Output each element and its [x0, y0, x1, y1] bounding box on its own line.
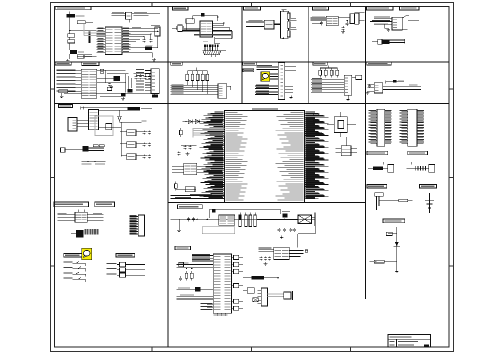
wire bus thick U2 right	[213, 31, 232, 39]
wire bus right of U15 thick	[243, 276, 279, 279]
wire audio jack down	[298, 224, 315, 248]
component dark box F bottom	[121, 93, 126, 100]
resistor column right of U15	[232, 255, 244, 310]
net label rows bottom left of U15	[201, 303, 214, 310]
net label text under U2	[194, 34, 231, 35]
IC U10 torch driver	[75, 212, 87, 222]
ground audio left	[177, 219, 181, 231]
capacitor C12 pair audio left	[187, 217, 208, 221]
capacitor C15 left of U15	[179, 276, 182, 281]
section I title box T-FLASH	[313, 62, 327, 65]
IC U8 motor driver	[374, 83, 382, 93]
section divider horizontal y=202.6	[168, 202, 366, 204]
wire input nets U3	[246, 20, 264, 26]
LED lamp DS1 dark component	[71, 229, 98, 238]
connector J14 camera FPC right	[400, 109, 424, 146]
connector J2 flex with coil pins	[203, 44, 221, 57]
resistor R11 pair left of U15	[185, 268, 193, 281]
transistor Q4 with cross	[253, 298, 259, 302]
wire J4 right angle net	[402, 16, 419, 21]
wire nets left of U10	[58, 213, 75, 220]
wire input nets U4	[310, 16, 326, 20]
electrolytic capacitor bank audio	[239, 213, 257, 227]
component box U2 left loop	[186, 19, 194, 31]
LED driver cell 1	[127, 130, 151, 136]
wire J7 to U9	[77, 120, 89, 126]
section E second title box GPS	[400, 6, 419, 10]
border zone tick marks	[50, 3, 453, 352]
wire nets right of U16	[289, 251, 303, 257]
fuse F1	[126, 12, 132, 19]
balun FL1	[97, 76, 120, 81]
IC U1 charger controller	[105, 27, 122, 55]
component box J5 bottom	[152, 94, 158, 98]
IC U2 flash memory	[200, 21, 213, 37]
capacitor C1	[77, 55, 92, 59]
transistor Q3	[243, 288, 254, 294]
connector J1 battery	[67, 14, 85, 18]
section F title box BLUETOOTH	[55, 62, 71, 65]
connector J11 right of U15	[258, 288, 268, 306]
resistor R8 left of U11	[180, 128, 182, 137]
ground SIM	[289, 96, 293, 99]
ground battery branch	[66, 54, 70, 63]
section B title box MEMORY	[173, 7, 189, 10]
section F second label box	[82, 62, 99, 65]
resistor array RN1 vertical resistors	[186, 68, 209, 95]
gray wire pair to speaker connector	[268, 294, 284, 296]
section C title box REGULATOR	[244, 6, 261, 10]
resistor R7 pair	[97, 69, 107, 73]
shield outline gray box K	[95, 116, 113, 136]
receiver EMI filter right	[407, 162, 435, 173]
connector J13 LCD FPC left	[369, 109, 392, 146]
section M title box LED	[64, 253, 82, 257]
capacitor bank F right	[134, 74, 151, 80]
wire output feedback loop	[131, 36, 158, 48]
wire trio bottom K	[82, 161, 106, 164]
resistor R12 chain branch	[369, 260, 397, 263]
wire bundle SIM nets upper	[257, 65, 279, 69]
IC U7 card socket	[344, 75, 351, 95]
section divider vertical x=365.5	[365, 6, 367, 299]
inductor L1	[151, 25, 160, 36]
resistor array RN2	[319, 66, 339, 78]
IC U11 baseband processor main	[224, 108, 304, 202]
label text J2	[221, 49, 226, 52]
LED driver cell 3	[127, 154, 151, 160]
IC U6 keypad scanner	[218, 84, 227, 98]
transistor Q1 row group right	[107, 262, 146, 277]
component box chain stub	[386, 232, 397, 235]
section A title box POWER/CHARGER	[56, 6, 91, 10]
capacitor C3	[149, 34, 152, 43]
resistor R2	[68, 30, 75, 37]
ground output branch	[152, 58, 156, 61]
wire bus rows T-flash	[311, 78, 344, 92]
connector J6 SIM socket	[278, 63, 285, 100]
component box U15 left small	[179, 262, 184, 266]
capacitor C11	[177, 151, 180, 155]
connector J3 camera socket	[350, 13, 359, 24]
IC U4 camera interface	[326, 16, 338, 26]
wire rows left of U15	[177, 263, 214, 268]
wire bus rows keypad	[171, 84, 219, 94]
page inner border frame	[55, 6, 449, 347]
section J title box VIBRATOR	[367, 62, 392, 65]
capacitor C8 group	[97, 82, 126, 89]
wire SIM right stubs	[285, 67, 296, 92]
section L title box TORCH	[54, 202, 89, 207]
capacitor C10 cluster	[181, 145, 197, 155]
wire mid row left of U15 with resistor	[177, 287, 214, 291]
IC U5 bluetooth	[81, 69, 97, 98]
label text B bottom	[203, 40, 208, 43]
gray shield bus section A	[84, 24, 105, 35]
ground left of U8	[366, 91, 370, 94]
net label right of divider	[370, 260, 377, 263]
IC U14 audio amplifier	[219, 215, 235, 225]
capacitor C14 pair audio bottom right	[289, 228, 296, 232]
receiver EMI filter left	[368, 162, 394, 173]
wire stub U6 right	[227, 86, 231, 90]
thermistor RT1	[70, 43, 84, 54]
wire U9 top nets	[81, 106, 99, 109]
wire output U3 to resistor bus	[274, 23, 280, 25]
wire bundle into J4	[370, 16, 392, 24]
pins left of J5	[145, 70, 151, 72]
resistor R3	[68, 37, 75, 43]
wire stubs above U10	[78, 210, 84, 213]
component box F bottom left	[59, 90, 76, 93]
tall IC section title box	[175, 246, 191, 250]
annotation comment marker yellow LED section	[82, 248, 92, 259]
IC U9 backlight driver	[89, 109, 99, 129]
capacitor C7	[346, 20, 349, 26]
ground under U4	[341, 30, 345, 33]
component group lower left right-column	[375, 193, 413, 210]
wire U8 top branch	[386, 80, 405, 84]
net labels left of U5	[57, 70, 82, 92]
label bar under J13	[367, 151, 388, 155]
wire vertical battery net	[69, 12, 71, 31]
wire pair to EMI filter	[99, 108, 128, 110]
wire U2 bottom to connector	[215, 37, 232, 44]
section D title box CAMERA	[313, 6, 329, 10]
wire bundle SIM nets lower	[255, 84, 278, 94]
section divider vertical x=242	[241, 6, 243, 103]
LED driver cell 2	[127, 142, 151, 148]
section divider horizontal y=103.5	[55, 103, 449, 105]
wire U1 bottom pins to ground	[131, 53, 153, 58]
title block revision cell dark	[424, 344, 429, 346]
connector J4 audio jack	[392, 17, 402, 30]
wire net out2 section C	[288, 27, 297, 30]
wire bundle SIM nets mid	[270, 74, 278, 79]
wire J4 stub down with ground	[385, 24, 390, 31]
capacitor C16 group under U16	[260, 256, 272, 265]
page outer border frame	[50, 3, 453, 352]
label bar charging detect section	[383, 219, 405, 223]
annotation comment marker yellow SIM	[261, 72, 270, 81]
ground chain bottom	[395, 270, 399, 273]
wire rows lower left of U15	[177, 295, 214, 299]
component box inside shield	[106, 124, 112, 130]
wire bus thick U2 left	[182, 30, 200, 32]
connector J9 torch	[130, 215, 145, 236]
gray bus bundle into U11	[192, 128, 224, 137]
capacitor C2	[143, 37, 146, 43]
diode pair D2 D3 left of U11	[182, 120, 206, 124]
wire top rail section C	[280, 9, 288, 12]
wire U4 to camera connector	[338, 17, 350, 19]
IC U13 small right of U11	[335, 137, 357, 156]
component ferrite audio	[282, 211, 290, 217]
diode D1	[145, 45, 152, 50]
capacitor C9 right of U7	[352, 75, 362, 79]
section H title box SIM CARD	[242, 62, 256, 65]
wire J3 right nets	[359, 13, 365, 21]
connector J8 small box K left	[61, 148, 79, 153]
wire vertical bus right of U3	[279, 11, 281, 38]
section divider horizontal y=61.9	[55, 61, 449, 63]
wire main horizontal audio	[171, 218, 315, 220]
wire bundle F center vertical	[104, 70, 131, 92]
wire bundle U1 right to output	[131, 27, 159, 42]
wire chain vertical right column	[396, 227, 397, 270]
wire pair U8 to motor	[383, 85, 421, 90]
resistor R1	[77, 21, 93, 24]
wire long F bottom	[64, 94, 152, 97]
connector J10 headset jack	[298, 213, 315, 227]
label bar speaker section	[420, 185, 437, 189]
transistor Q2 right of U11 box in box	[327, 112, 356, 137]
wire nets left of U8	[368, 84, 375, 91]
wire bus K vertical to cells	[99, 122, 127, 157]
resistor R4	[287, 11, 290, 21]
wire net VBAT right of F1	[129, 12, 160, 22]
pins right of U11	[305, 111, 329, 199]
IC U16 charger top right	[258, 247, 289, 259]
ground U7	[346, 95, 350, 100]
wire net VBAT left of F1	[112, 12, 126, 16]
section M label box right	[116, 253, 135, 257]
wire rows bottom left of U11	[171, 194, 225, 199]
resistor R6	[287, 31, 290, 37]
ground F bottom left	[60, 93, 64, 98]
wire down from FL2 with diode	[118, 110, 147, 122]
wire crystal to U2	[172, 28, 200, 30]
capacitor C4 bypass	[201, 13, 204, 16]
section divider vertical x=168	[167, 6, 169, 347]
resistor R10 group right of U11	[313, 114, 321, 135]
pins left of U1	[97, 28, 106, 30]
label bar motor section	[367, 185, 387, 189]
wire net out1 section C	[288, 18, 297, 21]
pins right of U1	[122, 28, 131, 30]
section K title box LCD DRIVER	[58, 104, 72, 107]
connector J7 LCD left	[68, 118, 77, 132]
wire junction battery node	[69, 30, 97, 31]
EMI filter FL3 dark hatched	[79, 145, 105, 152]
label box H second	[243, 69, 254, 72]
section E title box MIC SPEAKER	[366, 6, 393, 10]
component dark box F center	[127, 89, 132, 92]
capacitor C13 pair audio bottom	[278, 228, 286, 239]
wire audio to jack	[257, 219, 298, 220]
component small boxes F center	[105, 70, 111, 91]
wire bottom rail section C	[280, 38, 288, 39]
resistor R9 bottom left of U11	[175, 182, 197, 192]
diode D4 on chain	[394, 242, 401, 246]
shield outline audio below U14	[202, 227, 235, 234]
title block text rows	[390, 336, 419, 345]
component group lower right right-column	[425, 193, 434, 213]
connector J5 bluetooth antenna	[151, 69, 159, 94]
wire U15 bottom stubs	[214, 313, 228, 316]
wire U2 right nets	[213, 22, 230, 31]
pins left of U11	[199, 112, 224, 199]
IC U15 power management tall	[213, 254, 231, 313]
crystal Y1	[177, 25, 184, 31]
connector J12 speaker	[284, 291, 293, 300]
section L second title box	[95, 202, 115, 207]
wire J4 bottom right net	[402, 28, 407, 30]
wire nets right of U10	[87, 213, 103, 220]
net label rows above left of U15	[192, 254, 213, 261]
label bar under J14	[408, 151, 428, 155]
title block frame	[388, 335, 431, 347]
audio section title box	[178, 205, 203, 209]
wire stub bottom left section A	[77, 54, 97, 56]
IC U3 LDO regulator	[264, 20, 274, 29]
wire top rail audio	[209, 209, 281, 218]
resistor R5	[287, 22, 290, 31]
section G title box KEYPAD	[171, 62, 183, 65]
component small box right of U16	[305, 250, 308, 252]
bus bar dark segment	[89, 32, 91, 44]
capacitor C5 under U4	[312, 21, 323, 25]
IC U12 small left of U11	[172, 163, 210, 175]
section divider vertical x=308.7	[308, 6, 310, 103]
LED row group left	[63, 261, 85, 282]
EMI filter FL2 dark bar	[128, 107, 153, 111]
wire top feedback loop U2	[193, 15, 219, 21]
capacitor C6 under U4 center	[342, 26, 345, 31]
microphone MK1 with EMI filter	[372, 39, 405, 44]
